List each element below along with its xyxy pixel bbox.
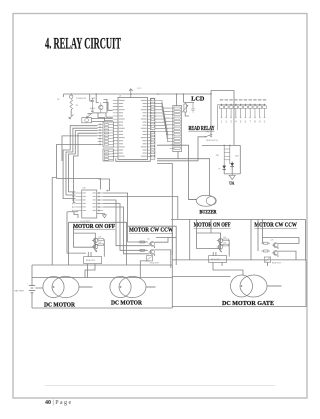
- underline MOTOR ON OFF right: [194, 227, 231, 229]
- wire J1 bottom stub: [177, 152, 179, 159]
- wire RL2 to motor1 a: [87, 264, 89, 278]
- RP4 element boxes: [151, 132, 154, 157]
- wire RL4 to motor3: [213, 262, 243, 275]
- motor M3: [231, 275, 253, 297]
- wire U10 out5 to Q9 emitter: [103, 207, 149, 254]
- U10 right pins: [97, 192, 103, 211]
- RP2 element boxes: [104, 150, 113, 160]
- pin R20 end: [221, 117, 222, 118]
- resistor R15 10K: [223, 244, 229, 246]
- LCD trimpot RV1: [184, 104, 187, 112]
- connector J1 LCD header: [173, 106, 182, 152]
- wire U10 out3 to Q8 collector: [103, 200, 149, 246]
- wire RP1 pin3 to U10: [69, 131, 98, 192]
- wire left rail to battery box: [52, 178, 56, 266]
- wire diode common: [224, 173, 240, 175]
- U10 internal pin labels: [83, 192, 96, 210]
- resistor R23: [234, 105, 238, 117]
- label R28 value: [258, 99, 261, 100]
- resistor pack RP3: [150, 98, 155, 130]
- junction bus J1: [176, 93, 178, 95]
- pin R25 end: [245, 117, 246, 118]
- svg-text:1N: 1N: [218, 169, 220, 171]
- underline MOTOR CW CCW right: [254, 227, 297, 229]
- wire section1 box: [69, 222, 127, 265]
- wire section3-4 divider: [250, 219, 252, 260]
- underline MOTOR CW CCW left: [129, 232, 173, 234]
- wire bus to C1: [90, 94, 93, 101]
- wire R1 to ground: [70, 110, 72, 116]
- junction coil right: [229, 145, 231, 147]
- wire box joint: [171, 307, 173, 309]
- svg-text:POWER IN: POWER IN: [76, 98, 87, 100]
- wire C2 to ground: [88, 114, 92, 115]
- wire RP1 pin4 to U10: [73, 133, 97, 202]
- resistor row bus: [218, 105, 266, 131]
- wire RP2 to U10 area: [99, 179, 110, 191]
- resistor R17: [261, 250, 270, 252]
- tick RP2 wire: [106, 190, 110, 192]
- wire switch feed: [157, 137, 205, 161]
- J1 pin boxes: [170, 107, 180, 149]
- wire to ground: [231, 174, 233, 175]
- wire bus to J1: [176, 94, 178, 106]
- resistor R14 10K: [223, 239, 229, 241]
- wire RL4 stubs: [213, 252, 216, 256]
- svg-text:READ RELAY: READ RELAY: [189, 126, 215, 132]
- wire section3 loop: [197, 233, 221, 249]
- wire to U1 pin7: [98, 113, 113, 121]
- U1 left pin stubs: [113, 101, 118, 157]
- wire X1 to U1 osc: [91, 119, 112, 122]
- pin R21 end: [226, 117, 227, 118]
- svg-text:BATTERY: BATTERY: [15, 290, 25, 293]
- wire U10 to motor section1: [67, 212, 86, 253]
- junction bus LCD: [183, 93, 185, 95]
- transistor Q13: [272, 251, 278, 256]
- resistor R21: [224, 105, 228, 117]
- Q6 Q7 emitter arrows: [94, 243, 97, 252]
- diode D6: [222, 166, 226, 169]
- wire to U1 pin6: [101, 113, 113, 117]
- svg-text:MOTOR ON OFF: MOTOR ON OFF: [194, 222, 231, 229]
- wire RL2 stubs: [88, 252, 91, 257]
- pin R28 end: [259, 117, 260, 118]
- wire section4 box right: [305, 219, 307, 260]
- diode D7: [230, 163, 234, 166]
- transistor Q11: [217, 245, 223, 250]
- wire Q6 Q7 leads: [97, 239, 104, 256]
- wire bus to LCD: [158, 93, 211, 95]
- wires U1 to J1 fan: [155, 101, 170, 142]
- pin R22 end: [231, 117, 232, 118]
- wire RP1 long to U10 right ticks: [57, 144, 101, 189]
- pin R23 end: [235, 117, 236, 118]
- svg-text:DC MOTOR: DC MOTOR: [111, 300, 142, 307]
- wire U10 com: [74, 212, 78, 219]
- pin R27 end: [254, 117, 255, 118]
- wire RL3 to motor2: [140, 261, 149, 277]
- wire U10 out1 to Q8: [103, 193, 148, 242]
- relay RL2: [84, 257, 102, 264]
- wire Q5 loop right: [104, 100, 108, 113]
- wire U10 to ground: [97, 214, 105, 215]
- resistor R1 1K: [70, 99, 73, 109]
- svg-text:U1: U1: [119, 95, 121, 97]
- relay RL5: [264, 257, 270, 262]
- wire to U1 pin4: [103, 102, 113, 110]
- pin R24 end: [240, 117, 241, 118]
- wire motor gate box outline: [172, 226, 306, 307]
- wire section3 box left: [189, 219, 191, 260]
- wire LCD frame: [184, 103, 194, 117]
- resistor R10 10K: [98, 239, 104, 241]
- junction coil left: [223, 145, 225, 147]
- svg-text:MOTOR CW CCW: MOTOR CW CCW: [129, 227, 173, 234]
- svg-text:BUZZER: BUZZER: [200, 209, 217, 215]
- resistor pack RP1: [103, 122, 114, 147]
- label R23 value: [234, 99, 237, 100]
- svg-text:VR4: VR4: [206, 131, 209, 133]
- wire bus to LCD pot: [183, 94, 185, 103]
- buzzer BZ1: [196, 195, 215, 206]
- crystal X1: [82, 118, 92, 123]
- resistor R24: [239, 105, 243, 117]
- wire RL2 to motor1 b: [85, 264, 95, 278]
- motor M2: [110, 276, 131, 297]
- resistor R16: [261, 242, 270, 244]
- wire D6 leads: [223, 164, 225, 174]
- wire LCD to relay switch: [210, 94, 212, 137]
- wire supply rail to motor3: [172, 276, 230, 278]
- wire section2 top: [168, 237, 176, 239]
- wire section1-2 divider: [126, 222, 128, 265]
- wire Q8 Q9 leads: [155, 238, 171, 269]
- junction: [210, 93, 212, 95]
- resistor R25: [244, 105, 248, 117]
- resistor R29: [263, 105, 267, 117]
- battery B1: [29, 284, 35, 297]
- label R26 value: [248, 99, 251, 100]
- ground U10: [102, 215, 107, 218]
- Q10 Q11 emitter arrows: [219, 243, 222, 252]
- junction: [70, 93, 72, 95]
- resistor R22: [229, 105, 233, 117]
- transistor Q6: [92, 238, 98, 243]
- svg-text:MOTOR CW CCW: MOTOR CW CCW: [254, 222, 297, 229]
- svg-text:VCC: VCC: [137, 88, 142, 90]
- wire band to buzzer top: [157, 159, 210, 196]
- wire D7 leads: [231, 162, 233, 174]
- wire Q10 Q11 leads: [222, 240, 229, 257]
- wire Q5 emitter: [93, 112, 101, 114]
- underline MOTOR ON OFF left: [73, 229, 115, 231]
- label R20 value: [220, 99, 223, 100]
- relay coil L1: [224, 145, 230, 164]
- LED D2: [70, 95, 73, 98]
- motor M1: [43, 276, 64, 297]
- wire band to buzzer left: [157, 145, 196, 199]
- pin R29 end: [264, 117, 265, 118]
- resistor R12: [138, 241, 147, 243]
- wire relay right branch: [239, 145, 241, 174]
- label R29 value: [263, 99, 266, 100]
- capacitor C2: [91, 104, 94, 114]
- transistor Q9: [149, 250, 155, 255]
- wire battery box outline: [32, 265, 172, 308]
- wire top feed to relay: [211, 91, 234, 146]
- U1 pin name labels: [119, 100, 147, 157]
- underline READ RELAY: [189, 130, 215, 132]
- wire section box right top: [171, 218, 306, 220]
- transistor Q5: [99, 105, 103, 109]
- label R21 value: [225, 99, 228, 100]
- resistor R20: [220, 105, 224, 117]
- wire section1 loop: [74, 233, 96, 247]
- microcontroller U1 PIC16F877A: [118, 98, 148, 160]
- capacitor C1: [91, 98, 94, 104]
- wire VCC top bus: [64, 93, 159, 95]
- crystal X1 symbol: [85, 118, 89, 122]
- ground C2: [87, 113, 92, 118]
- power VCC symbol: [129, 89, 133, 98]
- resistor pack RP2: [103, 149, 114, 161]
- wire bus to section3 a: [196, 219, 198, 233]
- RP3 element boxes: [151, 99, 154, 127]
- U10 left pins: [73, 192, 82, 211]
- wire Q12 Q13 leads: [263, 238, 299, 261]
- wire RP1 pin6: [62, 136, 98, 161]
- relay RL3: [146, 256, 152, 261]
- label R25 value: [244, 99, 247, 100]
- wire supply rail in battery box: [32, 277, 172, 279]
- resistor R26: [248, 105, 252, 117]
- wire RP1 pin2 to U10: [66, 128, 98, 195]
- resistor pack RP4: [150, 131, 155, 159]
- junction bus: [95, 93, 97, 95]
- wire section2 box: [127, 226, 177, 265]
- wire RL5 down: [267, 262, 269, 266]
- wire U10 out2 to section box: [103, 197, 178, 220]
- transistor Q10: [217, 238, 223, 243]
- RP1 element boxes: [104, 124, 113, 146]
- relay RL4: [209, 256, 227, 263]
- label R22 value: [229, 99, 232, 100]
- ground LCD: [191, 103, 195, 113]
- transistor Q8: [149, 242, 155, 247]
- svg-text:UA: UA: [229, 181, 234, 185]
- driver IC U10 ULN2003: [82, 190, 97, 218]
- label R24 value: [239, 99, 242, 100]
- transistor Q12: [272, 243, 278, 248]
- wire U10 out4 to Q9: [103, 204, 148, 251]
- wire bus to section3 b: [210, 219, 212, 233]
- ground relay: [229, 175, 235, 179]
- svg-text:4. RELAY CIRCUIT: 4. RELAY CIRCUIT: [45, 36, 121, 53]
- svg-text:DC MOTOR GATE: DC MOTOR GATE: [222, 300, 275, 307]
- svg-text:DC MOTOR: DC MOTOR: [44, 302, 75, 309]
- relay switch RL1 contacts: [205, 136, 207, 138]
- junction VCC bus: [130, 93, 132, 95]
- resistor R27: [253, 105, 257, 117]
- resistor R28: [258, 105, 262, 117]
- wire RP1 pin1 to U10: [63, 126, 97, 199]
- pin R26 end: [250, 117, 251, 118]
- wire bus to Q5 base: [96, 94, 99, 102]
- svg-text:MOTOR ON OFF: MOTOR ON OFF: [73, 223, 115, 230]
- U1 right pin stubs: [148, 101, 152, 157]
- wire stub up: [210, 91, 212, 95]
- wire band down right: [157, 164, 172, 256]
- wire U1 bottom loop: [116, 159, 151, 162]
- junction bus left: [157, 93, 159, 95]
- wire buzzer stub: [189, 199, 197, 201]
- wire coil top rail: [202, 144, 240, 146]
- resistor R13: [138, 249, 147, 251]
- transistor Q7: [92, 244, 98, 249]
- ground power input: [69, 114, 74, 119]
- wire RL4 stub: [221, 262, 223, 266]
- label R27 value: [253, 99, 256, 100]
- resistor R11 10K: [98, 244, 104, 246]
- svg-text:LCD: LCD: [191, 95, 204, 102]
- wire stub left: [63, 94, 65, 97]
- wire bus to section4: [258, 219, 263, 251]
- wire battery to motor1: [35, 287, 43, 289]
- RP1 left pin ticks: [98, 124, 104, 146]
